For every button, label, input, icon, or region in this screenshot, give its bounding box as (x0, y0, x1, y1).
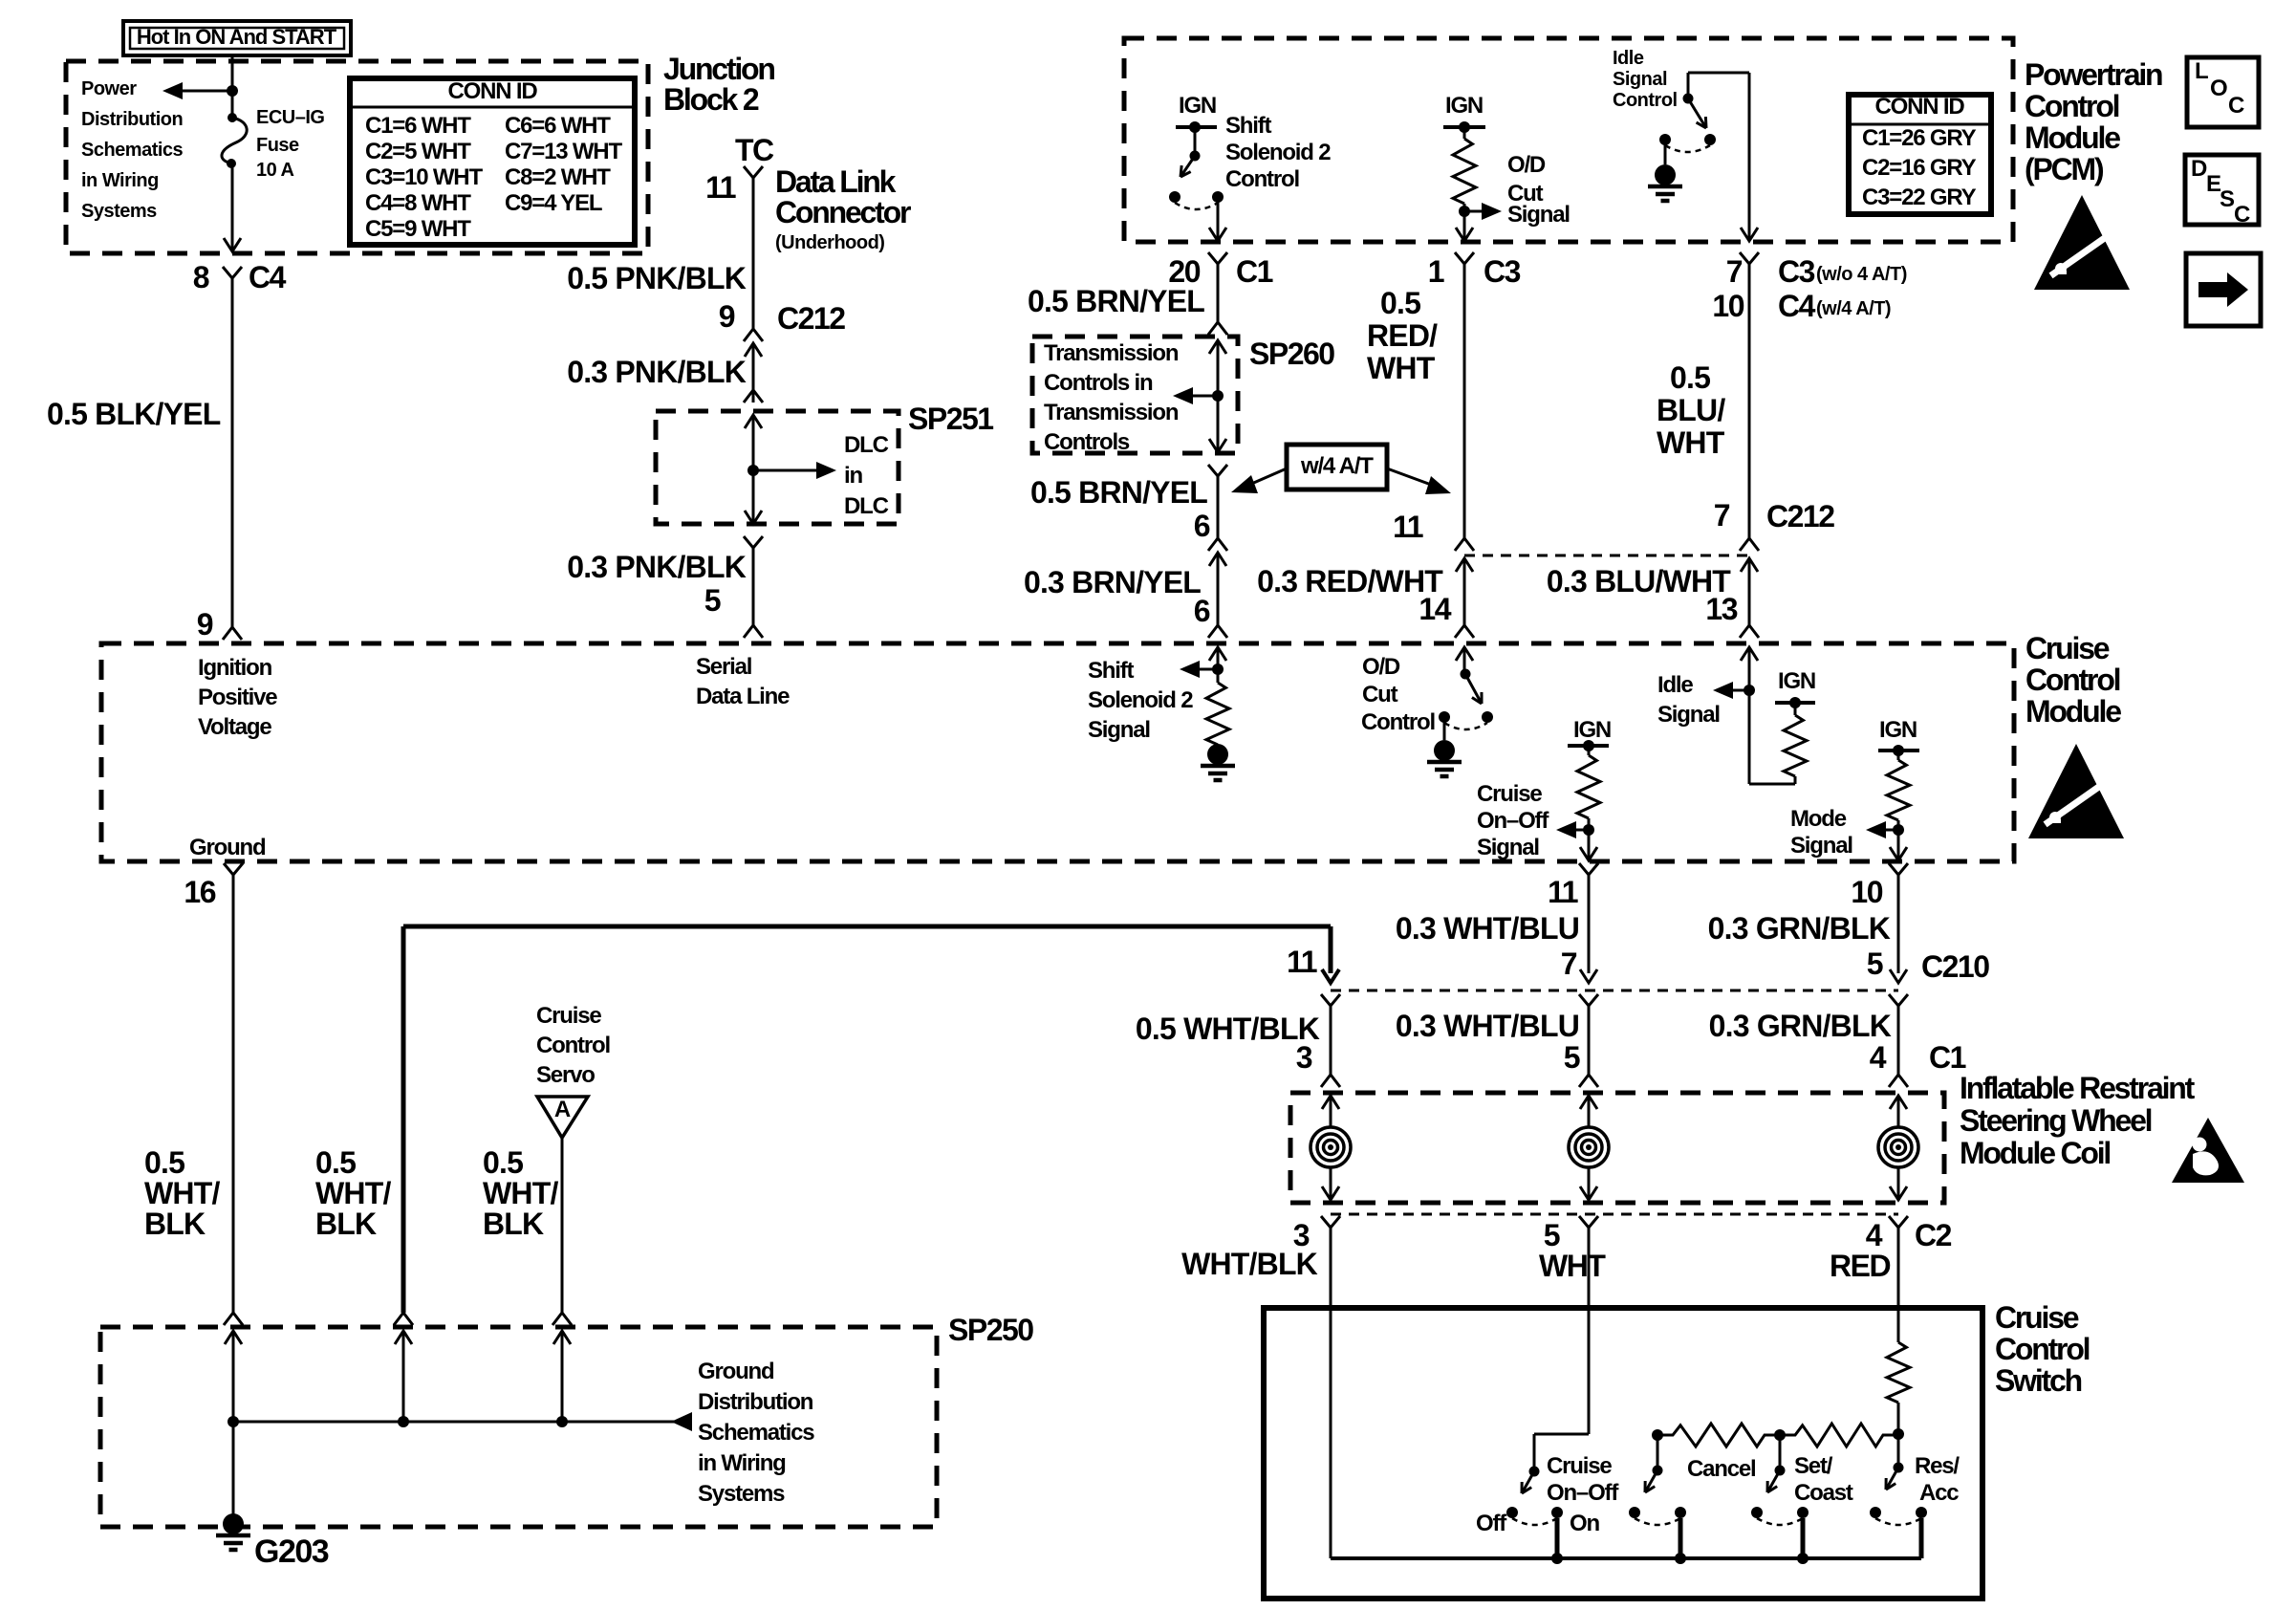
svg-text:C3: C3 (1778, 254, 1815, 289)
svg-text:0.3 BLU/WHT: 0.3 BLU/WHT (1547, 564, 1731, 598)
svg-text:0.5: 0.5 (483, 1145, 523, 1180)
switch Cruise On-Off (1534, 1433, 1589, 1436)
connector terminal TC (744, 166, 763, 178)
svg-text:DLC: DLC (844, 432, 889, 458)
svg-text:TC: TC (735, 133, 774, 167)
svg-text:(PCM): (PCM) (2025, 152, 2104, 186)
svg-text:O: O (2210, 76, 2227, 101)
svg-text:11: 11 (1287, 945, 1317, 979)
svg-text:Systems: Systems (81, 201, 157, 222)
in-line connector row C210 (1331, 990, 1898, 992)
svg-text:Junction: Junction (663, 52, 774, 86)
ground G203 (223, 1513, 244, 1534)
svg-text:BLU/: BLU/ (1657, 393, 1725, 427)
svg-text:Signal: Signal (1477, 835, 1539, 860)
in-line connector row C2 below coil box (1331, 1213, 1898, 1216)
svg-text:C1=6 WHT: C1=6 WHT (365, 113, 471, 139)
svg-text:7: 7 (1714, 498, 1730, 533)
CONN ID table Junction Block 2 (350, 78, 635, 245)
wire 4 RED into cruise switch (1897, 1235, 1900, 1342)
svg-text:Set/: Set/ (1794, 1453, 1833, 1479)
svg-text:1: 1 (1428, 254, 1444, 289)
svg-text:11: 11 (1548, 875, 1578, 909)
svg-text:WHT/: WHT/ (483, 1176, 558, 1210)
svg-text:Cruise: Cruise (536, 1003, 601, 1029)
wire idle resistor to idle wire (1794, 776, 1797, 784)
svg-text:Voltage: Voltage (198, 714, 271, 740)
svg-text:C5=9 WHT: C5=9 WHT (365, 216, 471, 242)
svg-text:Connector: Connector (775, 195, 911, 229)
wire 0.3 RED/WHT to CCM pin 14 (1463, 583, 1466, 625)
svg-text:Ignition: Ignition (198, 655, 272, 681)
svg-text:Schematics: Schematics (698, 1420, 814, 1446)
svg-text:IGN: IGN (1445, 93, 1483, 119)
svg-text:13: 13 (1705, 592, 1737, 626)
svg-text:Coast: Coast (1794, 1480, 1853, 1506)
svg-text:Acc: Acc (1919, 1480, 1959, 1506)
svg-text:BLK: BLK (144, 1207, 206, 1241)
wire 0.5 BRN/YEL from PCM pin 20 to SP260 (1217, 272, 1220, 322)
svg-text:C2=5 WHT: C2=5 WHT (365, 139, 471, 164)
svg-text:Control: Control (536, 1033, 610, 1058)
svg-text:6: 6 (1194, 509, 1210, 543)
Inflatable Restraint Steering Wheel Module Coil dashed box (1290, 1093, 1944, 1203)
wire from servo triangle (561, 1138, 564, 1313)
DESC reference box (2185, 155, 2259, 225)
svg-text:Distribution: Distribution (81, 109, 183, 130)
svg-text:Res/: Res/ (1915, 1453, 1960, 1479)
svg-text:SP250: SP250 (948, 1313, 1033, 1347)
svg-text:Systems: Systems (698, 1481, 785, 1507)
svg-text:Servo: Servo (536, 1062, 595, 1088)
svg-text:SP260: SP260 (1249, 337, 1334, 371)
wire 0.5 RED/WHT from PCM pin 1 (1463, 272, 1466, 538)
svg-text:C6=6 WHT: C6=6 WHT (505, 113, 611, 139)
Powertrain Control Module dashed box (1124, 38, 2013, 242)
svg-text:C: C (2228, 93, 2244, 119)
svg-text:Cruise: Cruise (2025, 631, 2110, 665)
svg-text:DLC: DLC (844, 493, 889, 519)
svg-text:in: in (844, 463, 862, 489)
svg-text:Transmission: Transmission (1044, 400, 1179, 425)
svg-text:(w/4 A/T): (w/4 A/T) (1816, 298, 1891, 319)
terminal CCM pin 10 mode (1889, 863, 1908, 875)
svg-text:Inflatable Restraint: Inflatable Restraint (1960, 1071, 2196, 1105)
svg-text:0.3 WHT/BLU: 0.3 WHT/BLU (1396, 911, 1579, 946)
svg-text:IGN: IGN (1573, 717, 1611, 743)
svg-text:0.5 BLK/YEL: 0.5 BLK/YEL (47, 397, 221, 431)
power source box Hot In ON And START (123, 21, 351, 55)
svg-text:5: 5 (1544, 1218, 1560, 1252)
svg-text:Data Line: Data Line (696, 684, 790, 709)
svg-text:0.5 PNK/BLK: 0.5 PNK/BLK (567, 261, 746, 295)
wire 0.5 BRN/YEL to C212 pin 6 (1217, 484, 1220, 538)
reference arrow Ground Distribution Schematics (671, 1412, 692, 1431)
svg-text:Idle: Idle (1657, 672, 1693, 698)
svg-text:0.5: 0.5 (144, 1145, 184, 1180)
svg-text:Mode: Mode (1790, 806, 1847, 832)
svg-text:0.3 PNK/BLK: 0.3 PNK/BLK (567, 355, 746, 389)
bus wire inside cruise control switch (1331, 1556, 1921, 1560)
svg-text:0.3 GRN/BLK: 0.3 GRN/BLK (1709, 1009, 1892, 1043)
svg-text:4: 4 (1870, 1040, 1887, 1075)
svg-text:C3=10 WHT: C3=10 WHT (365, 164, 483, 190)
svg-text:Signal: Signal (1790, 833, 1852, 859)
wire idle signal control to pin 7/10 (1748, 73, 1751, 240)
terminal pin 20 C1 (1208, 252, 1227, 264)
svg-text:in Wiring: in Wiring (698, 1450, 786, 1476)
svg-text:Module Coil: Module Coil (1960, 1136, 2110, 1170)
svg-text:Controls in: Controls in (1044, 370, 1153, 396)
svg-text:3: 3 (1296, 1040, 1312, 1075)
svg-text:Power: Power (81, 78, 137, 99)
svg-text:5: 5 (1867, 946, 1883, 981)
fuse ECU-IG 10A (227, 113, 237, 122)
wire 0.3 GRN/BLK pin 10 to C210 pin 5 (1897, 882, 1900, 973)
svg-text:SP251: SP251 (908, 402, 993, 436)
wire 0.5 PNK/BLK (752, 178, 755, 329)
wire 0.3 WHT/BLU pin 11 to C210 pin 7 (1588, 882, 1591, 973)
wire 0.3 PNK/BLK to SP251 (752, 363, 755, 402)
svg-text:Signal: Signal (1613, 69, 1667, 90)
svg-text:On: On (1570, 1511, 1599, 1536)
Cruise Control Switch box (1264, 1308, 1982, 1599)
svg-text:(w/o 4 A/T): (w/o 4 A/T) (1816, 264, 1907, 285)
svg-text:4: 4 (1866, 1218, 1883, 1252)
svg-text:Signal: Signal (1088, 717, 1150, 743)
reference arrow to Power Distribution (227, 85, 238, 97)
wire 0.5 WHT/BLK ground from pin 16 (232, 882, 235, 1313)
svg-text:Serial: Serial (696, 654, 751, 680)
svg-text:WHT/BLK: WHT/BLK (1181, 1247, 1318, 1281)
svg-text:Cruise: Cruise (1995, 1300, 2079, 1335)
svg-text:11: 11 (1393, 510, 1423, 544)
resistor Shift Solenoid 2 Signal in CCM (1217, 647, 1220, 669)
svg-text:O/D: O/D (1362, 654, 1400, 680)
svg-text:0.5 BRN/YEL: 0.5 BRN/YEL (1028, 284, 1204, 318)
coil at x=1986 (1890, 1096, 1907, 1109)
svg-text:Control: Control (1995, 1332, 2090, 1366)
svg-text:0.3 WHT/BLU: 0.3 WHT/BLU (1396, 1009, 1579, 1043)
LOC reference box (2187, 57, 2259, 127)
svg-text:On–Off: On–Off (1477, 808, 1549, 834)
svg-text:0.5: 0.5 (1670, 360, 1710, 395)
svg-text:w/4 A/T: w/4 A/T (1300, 453, 1374, 479)
svg-text:C1=26 GRY: C1=26 GRY (1862, 125, 1977, 151)
switch Cancel (1657, 1435, 1659, 1470)
terminal into CCM pin 9 (223, 627, 242, 640)
svg-text:16: 16 (184, 875, 215, 909)
svg-text:O/D: O/D (1507, 152, 1546, 178)
svg-text:11: 11 (705, 170, 736, 205)
svg-text:C9=4 YEL: C9=4 YEL (505, 190, 602, 216)
Cruise Control Module dashed box (101, 643, 2014, 861)
svg-text:0.3 RED/WHT: 0.3 RED/WHT (1257, 564, 1443, 598)
dashed box Power Distribution Schematics (66, 61, 648, 253)
svg-text:C4: C4 (1778, 289, 1816, 323)
svg-text:Data Link: Data Link (775, 164, 897, 199)
splice box SP260 (1032, 337, 1238, 453)
reference arrow to Transmission Controls (1188, 395, 1218, 398)
svg-text:10: 10 (1712, 289, 1744, 323)
svg-text:BLK: BLK (483, 1207, 544, 1241)
splice box SP251 (656, 411, 899, 524)
svg-text:0.5 BRN/YEL: 0.5 BRN/YEL (1030, 475, 1207, 510)
switch Set/Coast (1779, 1435, 1782, 1470)
svg-text:0.5: 0.5 (1380, 286, 1420, 320)
svg-text:8: 8 (193, 260, 209, 294)
svg-text:in Wiring: in Wiring (81, 170, 159, 191)
stub Res/Acc contact to bus (1919, 1518, 1924, 1558)
thin dashed connector line C212 (1464, 555, 1749, 557)
wire 0.3 GRN/BLK C210 to C1 pin 4 (1897, 1013, 1900, 1075)
svg-text:Powertrain: Powertrain (2025, 57, 2162, 92)
resistor row Set/Coast to Res/Acc (1780, 1424, 1898, 1447)
svg-text:Control: Control (2025, 663, 2120, 697)
svg-text:Module: Module (2025, 694, 2121, 729)
svg-text:WHT/: WHT/ (144, 1176, 220, 1210)
ESD warning triangle CCM (2028, 744, 2124, 838)
svg-text:Transmission: Transmission (1044, 340, 1179, 366)
svg-text:BLK: BLK (315, 1207, 377, 1241)
arrow from w/4 A/T to RED/WHT wire (1387, 468, 1434, 486)
svg-text:Solenoid 2: Solenoid 2 (1088, 687, 1193, 713)
stub Set/Coast contact to bus (1801, 1518, 1806, 1558)
resistor on RED wire in switch (1887, 1342, 1910, 1403)
ground for idle signal control switch (1664, 140, 1667, 164)
arrow from w/4 A/T to BRN/YEL wire (1249, 468, 1287, 485)
ground for O/D cut control (1443, 717, 1446, 740)
svg-text:Cancel: Cancel (1687, 1456, 1756, 1482)
wire to G203 ground (232, 1422, 235, 1515)
svg-text:RED: RED (1830, 1249, 1890, 1283)
reference arrow DLC in DLC (753, 469, 821, 472)
svg-text:5: 5 (1564, 1040, 1580, 1075)
wire 3 WHT/BLK into cruise switch (1330, 1235, 1332, 1558)
svg-text:5: 5 (704, 583, 721, 618)
wire 0.3 WHT/BLU C210 to C1 pin 5 (1588, 1013, 1591, 1075)
svg-text:10 A: 10 A (256, 160, 294, 181)
terminal CCM pin 11 cruise on-off (1579, 863, 1598, 875)
splice box SP250 (100, 1327, 937, 1527)
svg-text:C1: C1 (1929, 1040, 1966, 1075)
wire from Hot box to fuse (231, 55, 234, 118)
svg-text:Control: Control (1613, 90, 1678, 111)
svg-text:10: 10 (1851, 875, 1882, 909)
svg-text:Steering Wheel: Steering Wheel (1960, 1103, 2152, 1138)
CONN ID table PCM (1849, 95, 1991, 214)
svg-text:14: 14 (1419, 592, 1451, 626)
svg-text:RED/: RED/ (1367, 318, 1438, 353)
svg-text:0.3 PNK/BLK: 0.3 PNK/BLK (567, 550, 746, 584)
svg-text:0.5: 0.5 (315, 1145, 356, 1180)
svg-text:C212: C212 (777, 301, 845, 336)
svg-text:Controls: Controls (1044, 429, 1130, 455)
wire 0.3 BRN/YEL to CCM pin 6 (1217, 574, 1220, 625)
ground bus in SP250 (233, 1421, 675, 1424)
svg-text:C1: C1 (1236, 254, 1273, 289)
svg-text:C3=22 GRY: C3=22 GRY (1862, 185, 1977, 210)
svg-text:Solenoid 2: Solenoid 2 (1225, 140, 1331, 165)
svg-text:C4=8 WHT: C4=8 WHT (365, 190, 471, 216)
terminal pin 7 10 C3 C4 (1740, 252, 1759, 264)
svg-text:Hot In ON And START: Hot In ON And START (137, 25, 337, 49)
svg-text:Cruise: Cruise (1547, 1453, 1612, 1479)
wire 0.5 WHT/BLK heavy run to steering column (403, 925, 1331, 929)
svg-text:Control: Control (2025, 89, 2119, 123)
wire down inside SP251 (752, 470, 755, 524)
svg-text:WHT: WHT (1367, 351, 1436, 385)
svg-text:Module: Module (2025, 120, 2120, 155)
svg-text:9: 9 (197, 607, 213, 642)
wire 0.5 BLU/WHT from PCM pin 7/10 (1748, 272, 1751, 538)
stub Cancel contact to bus (1679, 1518, 1683, 1558)
svg-text:Distribution: Distribution (698, 1389, 813, 1415)
next-page arrow box (2186, 253, 2261, 326)
svg-text:S: S (2220, 186, 2235, 212)
svg-text:CONN ID: CONN ID (1875, 94, 1965, 120)
svg-text:IGN: IGN (1879, 717, 1917, 743)
svg-text:C7=13 WHT: C7=13 WHT (505, 139, 622, 164)
svg-text:C8=2 WHT: C8=2 WHT (505, 164, 611, 190)
svg-text:0.3 BRN/YEL: 0.3 BRN/YEL (1024, 565, 1201, 599)
svg-text:Signal: Signal (1657, 702, 1720, 728)
svg-text:Cut: Cut (1362, 682, 1398, 707)
svg-text:WHT: WHT (1539, 1249, 1606, 1283)
wire inside SP251 (752, 415, 755, 470)
svg-text:C2=16 GRY: C2=16 GRY (1862, 155, 1977, 181)
svg-text:Schematics: Schematics (81, 140, 184, 161)
ESD warning triangle PCM (2034, 195, 2130, 290)
svg-text:ECU–IG: ECU–IG (256, 107, 324, 128)
wire 0.5 BLK/YEL to Cruise Control Module pin 9 (231, 284, 234, 627)
airbag warning triangle (2172, 1118, 2244, 1183)
wire 0.3 BLU/WHT to CCM pin 13 (1748, 583, 1751, 625)
wire shift solenoid control to pin 20 (1217, 197, 1220, 240)
svg-text:On–Off: On–Off (1547, 1480, 1619, 1506)
svg-text:Cruise: Cruise (1477, 781, 1542, 807)
connector C4 terminal pin 8 (223, 267, 242, 278)
resistor Idle Signal in CCM (1748, 647, 1751, 690)
wire 0.3 PNK/BLK to CCM pin 5 (752, 555, 755, 625)
svg-text:Ground: Ground (189, 835, 266, 860)
svg-text:0.3 GRN/BLK: 0.3 GRN/BLK (1708, 911, 1891, 946)
svg-text:0.5 WHT/BLK: 0.5 WHT/BLK (1136, 1012, 1320, 1046)
svg-text:Ground: Ground (698, 1359, 774, 1384)
stub On contact to bus (1555, 1518, 1560, 1558)
svg-text:Signal: Signal (1507, 202, 1570, 228)
svg-text:Fuse: Fuse (256, 135, 299, 156)
svg-text:WHT/: WHT/ (315, 1176, 391, 1210)
terminal pin 1 C3 (1455, 252, 1474, 264)
svg-text:C: C (2234, 202, 2250, 228)
svg-text:C210: C210 (1921, 949, 1989, 984)
svg-text:C3: C3 (1484, 254, 1521, 289)
svg-text:Switch: Switch (1995, 1363, 2082, 1398)
wire 5 WHT into cruise switch (1588, 1235, 1591, 1434)
svg-text:Positive: Positive (198, 685, 277, 710)
svg-text:Off: Off (1476, 1511, 1507, 1536)
svg-text:D: D (2191, 156, 2207, 182)
terminals entering SP250 (224, 1313, 243, 1325)
svg-text:Shift: Shift (1088, 658, 1135, 684)
svg-text:IGN: IGN (1179, 93, 1216, 119)
svg-text:Control: Control (1225, 166, 1299, 192)
coil at x=1662 (1580, 1096, 1597, 1109)
svg-text:G203: G203 (254, 1534, 329, 1570)
svg-text:IGN: IGN (1778, 668, 1815, 694)
svg-text:Idle: Idle (1613, 48, 1644, 69)
svg-text:CONN ID: CONN ID (448, 78, 538, 104)
wire 0.5 WHT/BLK C210 to C1 pin 3 (1330, 1013, 1332, 1075)
svg-text:(Underhood): (Underhood) (775, 232, 884, 253)
svg-text:7: 7 (1726, 254, 1743, 289)
svg-text:9: 9 (719, 299, 735, 334)
switch O/D Cut Control in CCM (1463, 647, 1466, 674)
svg-text:L: L (2195, 58, 2208, 84)
svg-text:Shift: Shift (1225, 113, 1272, 139)
resistor row Cancel to Set/Coast (1652, 1429, 1663, 1441)
wire inside SP260 (1217, 340, 1220, 396)
wire from fuse to C4 pin 8 (231, 163, 234, 240)
svg-text:Control: Control (1361, 709, 1435, 735)
svg-text:WHT: WHT (1657, 425, 1725, 460)
reference arrow O/D Cut Signal (1464, 210, 1486, 213)
w/4 A/T tag box (1287, 445, 1387, 490)
svg-text:7: 7 (1561, 946, 1577, 981)
terminal below SP260 (1208, 465, 1227, 476)
svg-text:Block 2: Block 2 (663, 82, 759, 117)
svg-text:A: A (554, 1097, 571, 1122)
svg-text:C212: C212 (1766, 499, 1834, 533)
switch Res/Acc (1894, 1463, 1904, 1473)
svg-text:C2: C2 (1915, 1218, 1952, 1252)
svg-text:6: 6 (1194, 594, 1210, 628)
terminal CCM pin 16 ground wire (224, 863, 243, 875)
coil at x=1392 (1322, 1096, 1339, 1109)
terminal below SP251 (744, 536, 763, 548)
svg-text:C4: C4 (249, 260, 287, 294)
in-line connector C212 on BRN/YEL wire (1208, 538, 1227, 551)
